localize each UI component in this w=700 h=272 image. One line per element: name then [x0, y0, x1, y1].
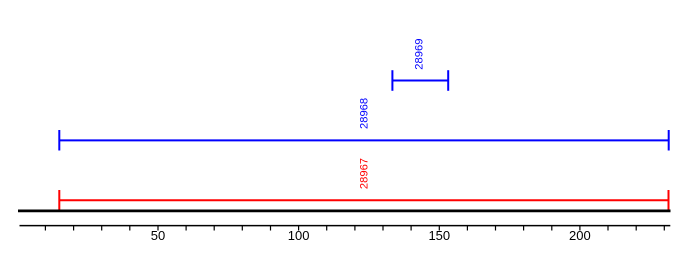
feature bar 28969: [392, 70, 448, 91]
svg-text:28968: 28968: [358, 98, 370, 129]
svg-text:100: 100: [288, 228, 310, 243]
svg-text:28967: 28967: [358, 158, 370, 189]
svg-text:50: 50: [151, 228, 165, 243]
ruler axis line: [20, 225, 671, 227]
sequence line: [18, 209, 671, 212]
svg-text:28969: 28969: [414, 39, 426, 70]
svg-text:200: 200: [569, 228, 591, 243]
feature bar 28968: [59, 130, 668, 151]
feature bar 28967: [59, 190, 668, 211]
svg-text:150: 150: [428, 228, 450, 243]
ruler ticks: [45, 226, 664, 231]
